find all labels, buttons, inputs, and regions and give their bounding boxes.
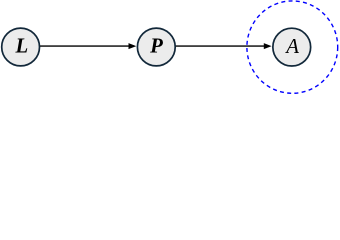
- svg-text:L: L: [15, 35, 29, 58]
- node P circle: [137, 28, 175, 66]
- wire P to A: [175, 45, 264, 47]
- arrowhead into P: [129, 44, 136, 49]
- arrowhead into A: [264, 44, 271, 49]
- wire L to P: [40, 45, 130, 47]
- node A circle: [273, 28, 311, 66]
- node L circle: [2, 28, 40, 66]
- dashed cluster boundary circle: [247, 1, 338, 93]
- svg-text:A: A: [284, 35, 299, 58]
- svg-text:P: P: [149, 35, 163, 58]
